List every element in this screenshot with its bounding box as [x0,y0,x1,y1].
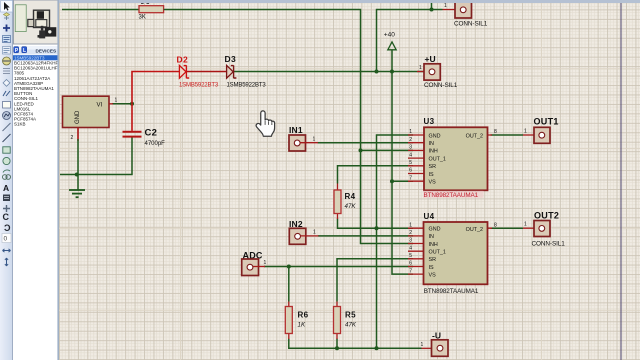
svg-text:VS: VS [429,180,437,186]
svg-text:IS: IS [429,172,434,178]
node junction VI / C2 / D2 [130,102,134,106]
resistor R4 47K [334,184,356,220]
device list [13,55,59,60]
overview minimap [14,0,60,44]
IC U4 BTN8982TAAUMA1 [408,212,497,295]
svg-text:1: 1 [264,260,267,266]
left object selector panel [13,0,59,360]
wire U3 pin7 VS [392,180,413,182]
svg-text:U4: U4 [424,212,435,221]
svg-text:2: 2 [409,137,412,143]
svg-text:IN: IN [429,234,434,240]
regulator U1 7805 [63,96,118,141]
svg-text:1: 1 [444,3,447,9]
svg-text:1SMB5922BT3: 1SMB5922BT3 [179,83,219,89]
svg-text:OUT_2: OUT_2 [466,227,483,233]
node junction ground rail [75,173,79,177]
svg-text:VS: VS [429,272,437,278]
wire +U rail (from D3 cathode to +U terminal) [234,71,424,73]
svg-text:2: 2 [409,230,412,236]
svg-text:8: 8 [494,222,497,228]
svg-text:4700pF: 4700pF [145,141,166,147]
node junction GND chain at bottom rail [375,346,379,350]
svg-text:R4: R4 [345,192,356,201]
svg-text:4: 4 [409,152,412,158]
top window strip [59,0,640,3]
svg-text:1: 1 [421,342,424,348]
node junction top rail [430,8,434,12]
resistor R5 47K [334,302,357,340]
terminal ADC [242,251,267,276]
svg-text:D2: D2 [177,55,188,65]
svg-text:3: 3 [409,238,412,244]
svg-text:L: L [23,48,26,54]
wire red D2 cathode to D3 anode [187,71,227,73]
svg-text:2: 2 [71,135,74,141]
svg-text:U3: U3 [424,117,435,126]
svg-text:47K: 47K [345,322,357,329]
capacitor C2 [123,128,166,148]
wire VS chain from +U rail to U4 pin7 [392,72,413,275]
svg-text:IN: IN [429,141,434,147]
wire top rail left (from left edge to resistor R7) [62,9,139,11]
svg-text:GND: GND [429,227,441,233]
svg-text:3K: 3K [139,15,146,21]
wire top rail to INH chain corner [164,10,361,151]
left mode toolbar [0,0,13,360]
svg-text:7: 7 [409,268,412,274]
wire R6 top to ADC node [288,267,290,302]
svg-text:OUT_2: OUT_2 [466,134,483,140]
wire U4 pin8 to OUT2 [491,227,524,229]
svg-text:5: 5 [409,160,412,166]
terminal IN1 [289,125,318,151]
wire ADC to U4 pin6 IS [264,266,413,268]
svg-text:VI: VI [97,103,103,109]
node junction +U rail / top branch [375,70,379,74]
panel right border [57,0,59,360]
diode D2 1SMB5922BT3 [177,55,219,89]
svg-text:A: A [3,183,9,193]
svg-text:CONN-SIL1: CONN-SIL1 [454,21,488,28]
terminal IN2 [289,219,319,244]
svg-text:INH: INH [429,149,438,155]
svg-text:BTN8982TAAUMA1: BTN8982TAAUMA1 [424,288,479,295]
svg-text:1: 1 [313,230,316,236]
wire IN2 to U4 pin2 [318,235,413,237]
svg-text:7: 7 [409,175,412,181]
svg-text:3: 3 [409,145,412,151]
power +40 [384,32,396,72]
svg-text:SR: SR [429,257,437,263]
wire GND chain U3 pin1 to U4 pin1 to bottom rail [377,135,414,348]
wire C2 bottom to ground rail [60,138,132,175]
svg-text:OUT_1: OUT_1 [429,156,446,162]
wire R4 bottom to U4 pin1 [338,219,414,229]
svg-text:1: 1 [524,129,527,135]
svg-text:1: 1 [419,65,422,71]
wire U3 pin3 INH [361,149,414,151]
svg-text:IS: IS [429,265,434,271]
svg-text:D3: D3 [225,54,236,64]
terminal -U [421,330,449,356]
wire red node down to C2 top [131,104,133,131]
svg-text:S1KB: S1KB [14,122,26,127]
wire R4 top to U3 pin5 SR [338,166,414,184]
svg-text:SR: SR [429,164,437,170]
svg-text:+U: +U [425,54,436,64]
mouse hand cursor [256,111,274,136]
svg-text:GND: GND [429,133,441,139]
svg-text:OUT1: OUT1 [534,117,559,127]
svg-text:GND: GND [75,110,81,124]
resistor R7 3K [139,2,164,21]
svg-text:1: 1 [115,98,118,104]
svg-text:+40: +40 [384,32,395,39]
DEVICES header [13,46,59,55]
wire INH chain down to U4 pin3 [361,150,414,243]
node junction +U rail / +40 [390,70,394,74]
svg-text:1: 1 [409,222,412,228]
svg-text:DEVICES: DEVICES [36,48,57,53]
svg-text:1K: 1K [298,322,306,329]
svg-text:-U: -U [432,330,441,340]
svg-text:1: 1 [313,137,316,143]
wire top rail right segment to CONN-SIL1 [377,2,443,72]
node junction U3 pin3 INH [359,148,363,152]
wire IN1 to U3 pin2 [318,142,414,144]
svg-text:47K: 47K [345,203,357,210]
svg-text:OUT_1: OUT_1 [429,250,446,256]
wire U3 pin8 to OUT1 [491,134,524,136]
resistor R6 1K [285,302,308,340]
svg-text:1: 1 [524,222,527,228]
svg-text:5: 5 [409,253,412,259]
svg-text:CONN-SIL1: CONN-SIL1 [424,82,458,89]
wire R5 bottom [336,339,338,349]
wire red riser node to D2 anode [132,72,179,104]
diode D3 1SMB5922BT3 [225,54,267,89]
IC U3 BTN8982TAAUMA1 [408,117,497,199]
svg-text:C: C [4,223,11,233]
svg-text:6: 6 [409,261,412,267]
svg-text:CONN-SIL1: CONN-SIL1 [532,241,566,248]
node junction GND chain at U4 pin1 [375,226,379,230]
sheet border (right edge of schematic sheet) [620,2,622,360]
svg-text:C2: C2 [145,128,158,139]
terminal OUT1 [523,117,559,144]
svg-text:OUT2: OUT2 [534,211,559,221]
svg-text:1SMB5922BT3: 1SMB5922BT3 [227,83,267,89]
ground symbol [69,190,85,197]
svg-text:0: 0 [4,236,8,243]
wire 7805 pin1 VI to node [112,103,132,105]
svg-text:1: 1 [409,129,412,135]
wire R5 top to U4 pin5 SR [337,259,413,302]
svg-text:IN1: IN1 [289,125,303,135]
node junction VS chain at U3 pin7 [390,179,394,183]
svg-text:6: 6 [409,168,412,174]
svg-text:4: 4 [409,245,412,251]
terminal CONN-SIL1 top [443,2,488,28]
terminal +U CONN-SIL1 [417,54,458,89]
node junction R5 bottom [335,346,339,350]
wire 7805 pin2 down to ground [77,128,79,190]
node junction ADC / R6 [287,265,291,269]
svg-text:R6: R6 [298,310,309,319]
svg-text:8: 8 [494,129,497,135]
svg-text:INH: INH [429,242,438,248]
svg-text:R5: R5 [345,310,356,319]
svg-text:BTN8982TAAUMA1: BTN8982TAAUMA1 [424,192,479,199]
wire bottom rail (R6 to -U terminal) [289,339,422,349]
svg-text:C: C [3,212,10,222]
terminal OUT2 CONN-SIL1 [523,211,565,248]
